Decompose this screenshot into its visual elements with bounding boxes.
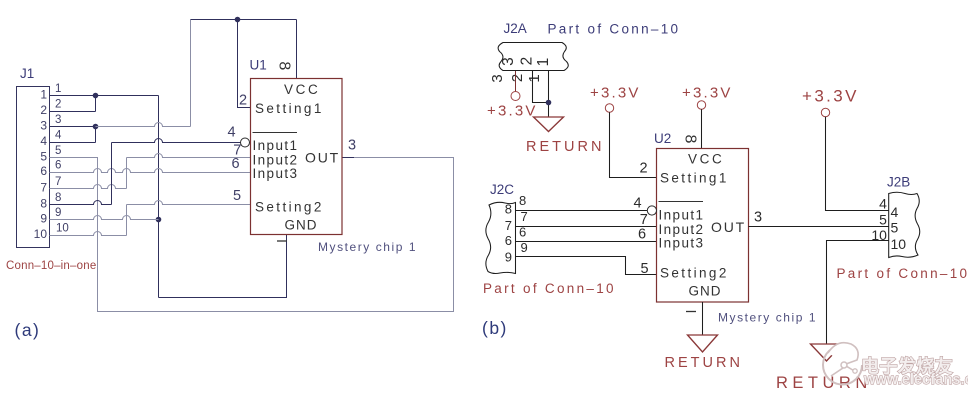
svg-text:+3.3V: +3.3V — [590, 85, 641, 102]
wire J2A pin2 stub — [533, 71, 549, 103]
svg-text:J2A: J2A — [504, 21, 527, 36]
svg-text:3: 3 — [348, 138, 356, 154]
svg-text:Mystery chip 1: Mystery chip 1 — [318, 240, 417, 254]
wire riser J1.10 to Setting2 row — [126, 205, 128, 236]
svg-text:2: 2 — [509, 74, 526, 82]
wire J2A pin3 stub — [515, 71, 517, 92]
junction dot J2A pins 1-2 — [546, 100, 552, 106]
wire J1.5 to OUT loop (right, bottom rail, up to OUT pin 3) — [50, 158, 454, 312]
svg-text:4: 4 — [228, 125, 236, 141]
svg-text:7: 7 — [521, 209, 528, 224]
wire J1.9 row with hops to V4 junction — [50, 216, 159, 220]
svg-text:(b): (b) — [482, 318, 508, 338]
wire vertical V4 net GND down to bottom — [158, 96, 160, 298]
chip U2 body — [657, 149, 749, 303]
svg-text:Input1: Input1 — [253, 138, 299, 153]
svg-text:5: 5 — [879, 212, 887, 228]
wire J1.2 stub — [50, 111, 96, 113]
svg-text:9: 9 — [40, 212, 47, 226]
wire Input2 row to U1 with hop — [127, 154, 251, 158]
wire J2C.9 to U2 Setting2 — [516, 257, 657, 275]
svg-text:2: 2 — [239, 93, 247, 109]
U1 pin number 1 rotated (GND) — [277, 240, 287, 242]
svg-text:6: 6 — [232, 156, 240, 172]
svg-text:10: 10 — [891, 236, 907, 252]
svg-text:www.elecfans.com: www.elecfans.com — [863, 372, 968, 388]
svg-text:6: 6 — [40, 164, 47, 178]
svg-text:Input3: Input3 — [659, 236, 705, 251]
junction dot on top rail — [235, 17, 241, 23]
svg-text:5: 5 — [233, 188, 241, 204]
svg-text:+3.3V: +3.3V — [487, 103, 538, 120]
svg-text:OUT: OUT — [305, 150, 340, 166]
svg-text:Input1: Input1 — [659, 208, 705, 223]
svg-text:8: 8 — [682, 135, 699, 144]
power symbol +3.3V circle at J2A.3 — [511, 92, 520, 101]
svg-text:8: 8 — [276, 61, 293, 70]
svg-text:Part of Conn–10: Part of Conn–10 — [483, 281, 616, 296]
svg-text:+3.3V: +3.3V — [682, 85, 733, 102]
power symbol +3.3V circle right — [821, 108, 829, 116]
wire Input1 row to U1 bubble with hop — [112, 139, 241, 143]
wire U1 OUT pin stub — [342, 157, 354, 159]
svg-text:Setting1: Setting1 — [660, 171, 729, 186]
op-amp-style chip U1 body — [251, 79, 343, 235]
svg-text:6: 6 — [55, 160, 61, 172]
wire Setting2 row to U1 with hop — [127, 201, 251, 205]
svg-text:4: 4 — [55, 130, 62, 142]
svg-text:Mystery chip 1: Mystery chip 1 — [718, 311, 817, 325]
wire U2 OUT to J2B pin 5 — [749, 226, 889, 228]
svg-text:3: 3 — [489, 74, 506, 82]
wire net34 to riser with hop over V4 — [96, 123, 191, 127]
svg-text:4: 4 — [634, 196, 642, 212]
svg-text:6: 6 — [505, 233, 512, 248]
svg-text:+3.3V: +3.3V — [802, 87, 859, 106]
U2 pin number 1 rotated (GND) — [686, 311, 696, 313]
svg-text:6: 6 — [638, 227, 646, 243]
wire J1.8 row with hop — [50, 201, 112, 205]
svg-text:7: 7 — [40, 181, 47, 195]
svg-text:RETURN: RETURN — [526, 139, 604, 155]
wire J1.7 row with hops — [50, 185, 127, 189]
svg-text:8: 8 — [40, 197, 47, 211]
U1 Input1 overline — [253, 132, 298, 134]
svg-text:1: 1 — [526, 74, 543, 82]
svg-text:8: 8 — [505, 202, 512, 217]
svg-text:2: 2 — [640, 161, 648, 177]
svg-text:Input3: Input3 — [253, 166, 299, 181]
svg-text:10: 10 — [871, 227, 887, 243]
svg-text:1: 1 — [55, 83, 61, 95]
svg-text:5: 5 — [641, 261, 649, 277]
svg-text:VCC: VCC — [688, 152, 724, 167]
wire J2A pin1 stub down to ground — [548, 71, 550, 117]
svg-text:2: 2 — [519, 57, 536, 66]
svg-text:GND: GND — [689, 284, 722, 299]
U1 inverting bubble on Input1 pin 4 — [241, 138, 250, 147]
wire riser J1.7 to Input2 row — [126, 158, 128, 189]
wire J1.3 stub — [50, 126, 96, 128]
svg-text:GND: GND — [285, 218, 318, 233]
connector J2B body — [889, 192, 920, 257]
U2 inverting bubble on Input1 pin 4 — [647, 206, 656, 215]
wire J2B pin 10 to ground — [827, 241, 889, 345]
svg-text:4: 4 — [879, 196, 887, 212]
svg-text:5: 5 — [891, 220, 899, 236]
wire J1.10 row with hop — [50, 232, 127, 236]
svg-text:(a): (a) — [15, 320, 41, 340]
wire J2C.7 to U2 Input2 — [516, 226, 657, 228]
ground symbol RETURN right — [811, 344, 843, 361]
ground symbol RETURN at J2A — [534, 117, 564, 132]
U2 Input1 overline — [659, 201, 704, 203]
connector J1 body — [17, 87, 50, 248]
svg-text:4: 4 — [891, 204, 899, 220]
svg-text:RETURN: RETURN — [665, 355, 743, 371]
svg-text:VCC: VCC — [284, 82, 320, 97]
svg-text:7: 7 — [505, 218, 512, 233]
wire J1.4 stub — [50, 142, 96, 144]
power symbol +3.3V circle mid — [605, 104, 613, 112]
junction dot pins 3-4 — [93, 124, 99, 130]
wire riser x190 to top rail — [190, 20, 192, 127]
wire J1.6 to U1 Input3 with hops — [50, 169, 251, 173]
svg-text:Setting2: Setting2 — [660, 266, 729, 281]
watermark chinese text — [861, 356, 953, 377]
svg-text:4: 4 — [40, 134, 47, 148]
svg-text:10: 10 — [34, 227, 48, 241]
power symbol +3.3V circle at VCC — [697, 101, 705, 109]
wire +3.3V right to J2B pin 4 — [826, 117, 889, 211]
svg-text:Setting1: Setting1 — [255, 101, 324, 116]
svg-text:3: 3 — [754, 210, 762, 226]
svg-text:U1: U1 — [250, 58, 267, 73]
ground symbol RETURN at U2 — [688, 335, 718, 352]
svg-text:2: 2 — [55, 99, 61, 111]
wire drop to U1 VCC pin 8 — [296, 20, 298, 79]
wire +3.3V to U2 Setting1 pin 2 — [610, 112, 657, 177]
wire top VCC rail — [191, 19, 297, 21]
wire joining J1.1 to J1.2 — [95, 96, 97, 112]
watermark logo circle — [823, 343, 862, 385]
svg-text:8: 8 — [519, 193, 526, 208]
wire joining J1.3 to J1.4 — [95, 127, 97, 143]
svg-text:7: 7 — [55, 176, 61, 188]
junction dot pins 1-2 — [93, 93, 99, 99]
svg-text:2: 2 — [40, 103, 47, 117]
svg-text:Part of Conn–10: Part of Conn–10 — [837, 266, 968, 281]
svg-text:Setting2: Setting2 — [255, 200, 324, 215]
wire riser J1.8 to Input1 row — [111, 143, 113, 205]
svg-text:9: 9 — [55, 207, 61, 219]
wire GND link bottom — [159, 235, 287, 298]
svg-text:9: 9 — [505, 250, 512, 265]
svg-text:J1: J1 — [20, 66, 34, 81]
svg-text:3: 3 — [500, 57, 517, 66]
wire J2C.6 to U2 Input3 — [516, 241, 657, 243]
svg-text:8: 8 — [55, 192, 61, 204]
connector J2A body — [498, 43, 568, 71]
junction dot row9 on V4 — [156, 217, 162, 223]
svg-text:1: 1 — [40, 88, 47, 102]
wire J2C.8 to U2 Input1 bubble — [516, 210, 648, 212]
svg-text:10: 10 — [56, 223, 69, 235]
svg-text:J2C: J2C — [490, 182, 514, 197]
svg-text:J2B: J2B — [887, 175, 910, 190]
svg-text:Conn–10–in–one: Conn–10–in–one — [6, 260, 96, 272]
wire U2 GND pin down — [702, 302, 704, 335]
svg-text:OUT: OUT — [711, 219, 746, 235]
svg-text:Part of Conn–10: Part of Conn–10 — [548, 22, 681, 37]
svg-text:9: 9 — [521, 240, 528, 255]
watermark url text — [863, 372, 968, 388]
svg-text:U2: U2 — [654, 131, 671, 146]
connector J2C body — [486, 202, 516, 273]
wire drop to U1 pin 2 Setting1 — [238, 20, 251, 108]
svg-text:5: 5 — [40, 150, 47, 164]
svg-text:1: 1 — [535, 58, 552, 67]
svg-text:3: 3 — [55, 114, 61, 126]
svg-text:3: 3 — [40, 119, 47, 133]
wire J1.1 stub and net to vertical V4 — [50, 95, 159, 97]
svg-text:5: 5 — [55, 145, 61, 157]
wire +3.3V to U2 VCC pin 8 — [701, 109, 703, 148]
